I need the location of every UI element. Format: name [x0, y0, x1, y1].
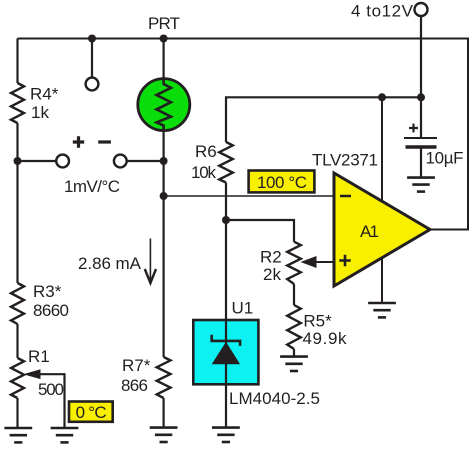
wire output-terminal stub	[91, 39, 93, 79]
svg-text:4 to12V: 4 to12V	[351, 2, 414, 21]
wire thermocouple left	[18, 160, 58, 162]
op-amp plus sign	[339, 255, 350, 266]
callout box 0 C	[69, 402, 113, 422]
capacitor C1 bottom plate	[406, 145, 437, 149]
junction dot left rail / TC	[14, 157, 22, 165]
PRT sensor circle	[138, 79, 190, 131]
wire inverting input	[164, 195, 334, 197]
current arrow 2.86 mA	[145, 239, 156, 284]
wire wiper of R1	[39, 374, 65, 427]
potentiometer R2	[287, 242, 301, 284]
wire R6 branch top	[226, 97, 421, 142]
junction dot PRT / inverting wire	[160, 192, 168, 200]
svg-text:R6: R6	[195, 142, 217, 161]
TC minus sign	[98, 140, 111, 143]
svg-text:10µF: 10µF	[426, 149, 464, 168]
svg-text:PRT: PRT	[148, 14, 180, 33]
wire R6 to reference node	[225, 183, 227, 221]
svg-text:0 °C: 0 °C	[76, 403, 107, 422]
ground op-amp	[368, 303, 396, 317]
svg-text:R4*: R4*	[30, 85, 59, 104]
wire supply terminal drop	[420, 16, 422, 138]
wire PRT column	[163, 39, 165, 428]
zener box U1	[193, 320, 258, 384]
junction dot top rail / stub	[88, 35, 96, 43]
PRT internal resistor	[157, 78, 172, 131]
resistor R5	[287, 305, 301, 349]
op-amp A1	[334, 173, 430, 286]
resistor R3	[11, 283, 24, 324]
node supply terminal	[415, 3, 428, 16]
wire R2-R5 link	[293, 284, 295, 305]
svg-text:866: 866	[121, 376, 148, 395]
ground below R1 wiper	[51, 428, 79, 442]
svg-text:49.9k: 49.9k	[303, 329, 348, 348]
svg-text:LM4040-2.5: LM4040-2.5	[229, 389, 320, 408]
wire op-amp V+ pin	[381, 97, 383, 203]
zener anode triangle	[212, 342, 240, 365]
svg-text:R1: R1	[28, 347, 50, 366]
ground below R7	[150, 428, 178, 442]
op-amp minus sign	[340, 195, 351, 198]
wire top rail / feedback from A1 output	[18, 39, 469, 230]
wire left rail segments	[16, 39, 18, 428]
svg-text:R2: R2	[260, 248, 282, 267]
wire wiper of R2 to + input	[313, 261, 334, 263]
junction dot supply rail / cap	[417, 93, 425, 101]
zener cathode bar	[212, 335, 240, 346]
svg-text:2.86 mA: 2.86 mA	[78, 254, 142, 273]
ground below left rail	[4, 428, 32, 442]
resistor R4	[11, 83, 24, 123]
ground below U1	[212, 428, 240, 442]
svg-text:R7*: R7*	[122, 356, 151, 375]
svg-text:A1: A1	[360, 222, 379, 241]
svg-text:1mV/°C: 1mV/°C	[64, 177, 120, 196]
resistor R6	[219, 142, 233, 183]
junction dot top rail / PRT	[160, 35, 168, 43]
svg-text:U1: U1	[232, 299, 254, 318]
wire R5 to ground	[293, 349, 295, 357]
junction dot reference node	[222, 216, 230, 224]
svg-text:TLV2371: TLV2371	[312, 151, 378, 170]
wire thermocouple right	[126, 160, 163, 162]
wire R2 branch	[226, 220, 294, 242]
svg-text:10k: 10k	[191, 163, 217, 182]
wire cap to ground	[420, 147, 422, 178]
potentiometer R1	[11, 358, 24, 398]
ground capacitor	[407, 178, 435, 192]
svg-text:R3*: R3*	[33, 282, 62, 301]
wiper arrow R2	[301, 256, 317, 268]
svg-text:8660: 8660	[33, 301, 69, 320]
wire op-amp ground pin	[381, 258, 383, 303]
node TC terminal +	[56, 155, 69, 168]
svg-text:500: 500	[38, 380, 64, 399]
junction dot supply rail / V+ pin	[378, 93, 386, 101]
callout box 100 C	[249, 171, 315, 193]
capacitor C1 top plate	[404, 137, 437, 139]
wire reference node down through U1 to ground	[225, 220, 227, 428]
ground below R5	[280, 357, 308, 371]
svg-text:R5*: R5*	[303, 312, 332, 331]
svg-text:100 °C: 100 °C	[257, 173, 307, 192]
resistor R7	[157, 357, 171, 398]
svg-text:1k: 1k	[31, 103, 49, 122]
capacitor C1 plus sign	[409, 124, 418, 133]
node TC terminal -	[114, 155, 127, 168]
wiper arrow R1	[23, 369, 40, 379]
node output terminal circle	[86, 78, 99, 91]
TC plus sign	[73, 136, 84, 147]
svg-text:2k: 2k	[263, 265, 281, 284]
junction dot PRT / TC	[160, 157, 168, 165]
